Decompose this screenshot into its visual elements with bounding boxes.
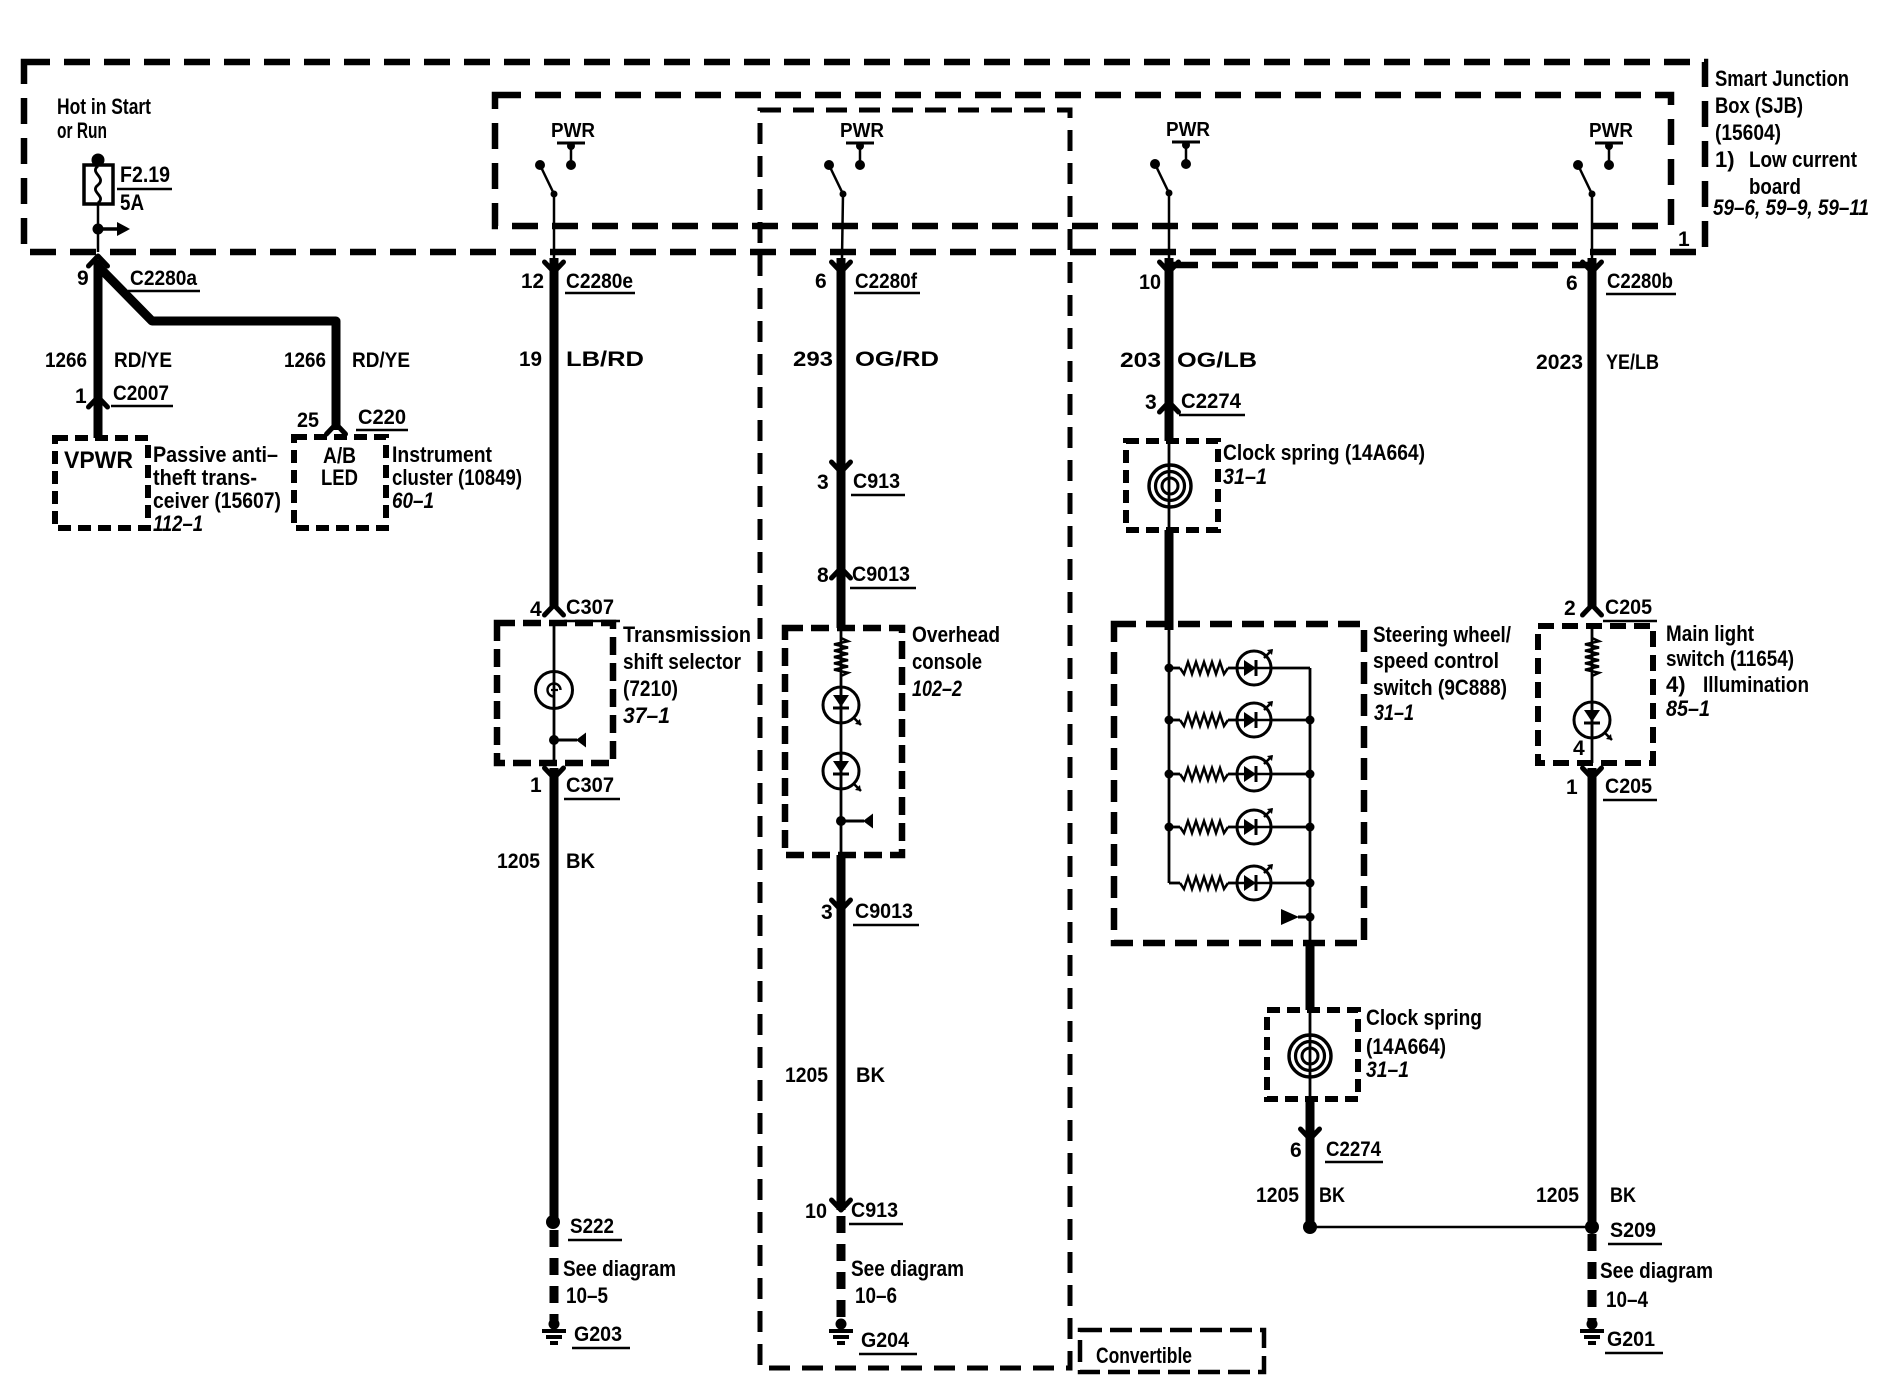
svg-text:C2274: C2274 — [1181, 390, 1241, 413]
svg-text:C913: C913 — [853, 470, 900, 493]
wire col3 switch to connector — [1168, 193, 1171, 258]
svg-text:1266: 1266 — [284, 349, 326, 372]
svg-text:60–1: 60–1 — [392, 488, 434, 513]
steering wheel/speed control switch box — [1114, 624, 1364, 943]
illumination branch 1 resistor and LED — [1165, 664, 1174, 673]
right bus in steering switch — [1309, 668, 1312, 943]
connector C913 pin 3 — [832, 462, 851, 472]
wire clock spring to steering switch — [1165, 530, 1174, 630]
svg-text:BK: BK — [1319, 1184, 1345, 1207]
svg-text:RD/YE: RD/YE — [352, 349, 410, 372]
svg-text:G201: G201 — [1607, 1328, 1655, 1351]
resistor in main light switch — [1585, 638, 1599, 676]
svg-text:3: 3 — [1145, 391, 1157, 414]
svg-text:1): 1) — [1715, 147, 1735, 172]
svg-text:31–1: 31–1 — [1223, 464, 1267, 489]
splice S222 — [546, 1215, 560, 1229]
svg-text:ceiver (15607): ceiver (15607) — [153, 488, 281, 513]
svg-text:6: 6 — [1566, 272, 1578, 295]
see-diagram wire col1 — [550, 1230, 559, 1322]
svg-text:2: 2 — [1564, 597, 1576, 620]
wire 203 OG/LB col3 — [1165, 258, 1174, 412]
connector C9013 pin 3 — [832, 900, 851, 910]
connector C307 pin 1 — [545, 768, 564, 778]
svg-text:3: 3 — [817, 471, 829, 494]
extra dashed segment below SJB bottom edge — [1172, 262, 1596, 269]
svg-text:1: 1 — [75, 385, 87, 408]
console lamp LED 1 — [823, 687, 859, 723]
svg-text:C205: C205 — [1605, 596, 1652, 619]
case ground in steering switch — [1306, 913, 1315, 922]
svg-text:Smart Junction: Smart Junction — [1715, 66, 1849, 91]
svg-text:BK: BK — [1610, 1184, 1636, 1207]
wire 1266 RD/YE to VPWR — [94, 260, 103, 438]
svg-text:Steering wheel/: Steering wheel/ — [1373, 622, 1511, 647]
wire col2 switch to connector — [842, 194, 843, 258]
svg-text:1: 1 — [530, 774, 542, 797]
svg-text:Illumination: Illumination — [1703, 672, 1809, 697]
svg-text:(14A664): (14A664) — [1366, 1034, 1446, 1059]
connector C2280b pin 6 — [1583, 262, 1602, 272]
svg-text:Clock spring (14A664): Clock spring (14A664) — [1223, 440, 1425, 465]
svg-text:RD/YE: RD/YE — [114, 349, 172, 372]
wire inside main light switch — [1591, 626, 1594, 763]
svg-text:Transmission: Transmission — [623, 622, 751, 647]
resistor in console — [834, 638, 848, 676]
svg-text:C2280e: C2280e — [566, 270, 633, 293]
svg-text:Box (SJB): Box (SJB) — [1715, 93, 1803, 118]
svg-text:31–1: 31–1 — [1366, 1057, 1409, 1082]
svg-text:or Run: or Run — [57, 118, 107, 143]
convertible variant dashed box around overhead console circuit — [760, 110, 1070, 1368]
svg-text:OG/LB: OG/LB — [1177, 349, 1257, 372]
svg-text:37–1: 37–1 — [623, 703, 670, 728]
connector C2274 pin 3 — [1160, 402, 1179, 412]
svg-text:59–6, 59–9, 59–11: 59–6, 59–9, 59–11 — [1713, 195, 1869, 220]
svg-text:VPWR: VPWR — [64, 447, 133, 474]
svg-text:C2280b: C2280b — [1607, 270, 1673, 293]
clock spring coil 1 — [1149, 465, 1191, 507]
connector pin 10 col3 — [1160, 262, 1179, 272]
svg-text:OG/RD: OG/RD — [855, 348, 939, 371]
svg-text:1: 1 — [1566, 776, 1578, 799]
wire col2 C913 to C9013 — [837, 462, 846, 575]
svg-text:YE/LB: YE/LB — [1606, 351, 1659, 374]
svg-text:Convertible: Convertible — [1096, 1343, 1192, 1368]
svg-text:PWR: PWR — [1589, 120, 1634, 142]
wire branch 1266 RD/YE to instrument cluster — [98, 266, 336, 430]
splice S209 — [1585, 1220, 1599, 1234]
svg-text:C913: C913 — [851, 1199, 898, 1222]
svg-text:10–6: 10–6 — [855, 1283, 897, 1308]
case ground in selector — [549, 735, 559, 745]
left bus in steering switch — [1168, 624, 1171, 883]
svg-text:8: 8 — [817, 564, 829, 587]
svg-text:C2274: C2274 — [1326, 1138, 1381, 1161]
connector C913 pin 10 — [832, 1200, 851, 1210]
wire 19 LB/RD col1 — [550, 258, 559, 608]
transmission shift selector box — [497, 623, 613, 763]
case ground in console — [836, 816, 846, 826]
svg-text:G203: G203 — [574, 1323, 622, 1346]
svg-text:1205: 1205 — [1256, 1184, 1299, 1207]
svg-text:PWR: PWR — [1166, 119, 1211, 141]
svg-text:6: 6 — [815, 270, 827, 293]
clock spring box 2 — [1267, 1010, 1358, 1099]
illumination branch 4 resistor and LED — [1165, 823, 1174, 832]
svg-text:3: 3 — [821, 901, 833, 924]
illumination branch 3 resistor and LED — [1165, 770, 1174, 779]
svg-text:C205: C205 — [1605, 775, 1652, 798]
svg-text:1: 1 — [1678, 228, 1690, 251]
svg-text:203: 203 — [1120, 349, 1161, 372]
connector C220 pin 25 — [327, 424, 346, 434]
svg-text:C220: C220 — [358, 406, 406, 429]
main light switch box — [1538, 626, 1653, 763]
svg-text:See diagram: See diagram — [1600, 1258, 1713, 1283]
svg-text:C2280f: C2280f — [855, 270, 918, 293]
junction node with branch arrow — [93, 224, 104, 235]
svg-text:S222: S222 — [570, 1215, 614, 1238]
wire 1205 BK col3 — [1306, 1130, 1315, 1227]
svg-text:switch (11654): switch (11654) — [1666, 646, 1794, 671]
svg-text:85–1: 85–1 — [1666, 696, 1710, 721]
svg-text:10–4: 10–4 — [1606, 1287, 1649, 1312]
svg-text:speed control: speed control — [1373, 648, 1499, 673]
svg-text:LB/RD: LB/RD — [566, 348, 644, 371]
illumination LED in main light switch — [1574, 702, 1610, 738]
svg-text:4: 4 — [530, 598, 542, 621]
svg-text:2023: 2023 — [1536, 351, 1583, 374]
wire col1 switch to connector — [553, 194, 556, 258]
passive anti-theft transceiver VPWR box — [55, 438, 148, 528]
svg-text:C2007: C2007 — [113, 382, 169, 405]
svg-text:cluster (10849): cluster (10849) — [392, 465, 522, 490]
svg-text:293: 293 — [793, 348, 833, 371]
console lamp LED 2 — [823, 753, 859, 789]
instrument cluster A/B LED box — [294, 437, 386, 528]
ground G203 — [549, 1319, 560, 1330]
svg-text:Hot in Start: Hot in Start — [57, 94, 152, 119]
wire inside selector — [553, 623, 556, 763]
svg-text:102–2: 102–2 — [912, 676, 963, 701]
svg-text:C307: C307 — [566, 774, 614, 797]
svg-text:4: 4 — [1573, 737, 1585, 760]
svg-text:5A: 5A — [120, 190, 144, 215]
wire into clock spring 1 — [1165, 409, 1174, 441]
wire col4 switch to connector — [1591, 194, 1594, 258]
svg-text:theft trans-: theft trans- — [153, 465, 257, 490]
svg-text:10: 10 — [805, 1200, 827, 1223]
svg-text:1205: 1205 — [1536, 1184, 1579, 1207]
connector C2280a pin 9 — [89, 256, 108, 266]
svg-text:PWR: PWR — [840, 120, 885, 142]
svg-text:Low current: Low current — [1749, 147, 1858, 172]
connector C307 pin 4 — [545, 605, 564, 615]
svg-text:Overhead: Overhead — [912, 622, 1000, 647]
illumination branch 2 resistor and LED — [1165, 716, 1174, 725]
fuse F2.19 5A — [92, 154, 105, 167]
ground G201 — [1587, 1319, 1598, 1330]
ground G204 — [836, 1319, 847, 1330]
svg-text:See diagram: See diagram — [563, 1256, 676, 1281]
SJB inner dashed boundary (low current board) — [495, 95, 1671, 226]
clock spring coil 2 — [1289, 1035, 1331, 1077]
Smart Junction Box outer dashed boundary — [24, 62, 1705, 252]
wire col2 into overhead console — [837, 575, 846, 628]
svg-text:31–1: 31–1 — [1374, 700, 1414, 725]
svg-text:LED: LED — [321, 465, 358, 490]
wire 1205 BK col1 — [550, 768, 559, 1222]
see-diagram wire col4 — [1588, 1234, 1597, 1322]
connector C2280f pin 6 — [832, 262, 851, 272]
svg-text:1205: 1205 — [785, 1064, 828, 1087]
svg-text:shift selector: shift selector — [623, 649, 741, 674]
svg-text:Clock spring: Clock spring — [1366, 1005, 1482, 1030]
convertible label box — [1080, 1330, 1264, 1372]
wire 1205 BK col2 — [837, 905, 846, 1210]
svg-text:C2280a: C2280a — [130, 267, 197, 290]
illumination branch 5 resistor and LED — [1169, 882, 1180, 885]
svg-text:10–5: 10–5 — [566, 1283, 608, 1308]
svg-text:See diagram: See diagram — [851, 1256, 964, 1281]
connector C2274 pin 6 — [1306, 1099, 1315, 1139]
svg-text:(7210): (7210) — [623, 676, 678, 701]
svg-text:BK: BK — [856, 1064, 885, 1087]
see-diagram wire col2 — [837, 1216, 846, 1322]
svg-text:112–1: 112–1 — [153, 511, 203, 536]
connector C205 pin 2 — [1583, 605, 1602, 615]
svg-text:F2.19: F2.19 — [120, 162, 170, 187]
connector C9013 pin 8 — [832, 568, 851, 578]
illumination lamp — [536, 672, 573, 709]
wire steering switch to clock spring 2 — [1306, 940, 1315, 1010]
svg-text:Passive anti–: Passive anti– — [153, 442, 278, 467]
svg-text:6: 6 — [1290, 1139, 1302, 1162]
svg-text:(15604): (15604) — [1715, 120, 1781, 145]
wire 1205 BK col4 — [1588, 768, 1597, 1227]
svg-text:switch (9C888): switch (9C888) — [1373, 675, 1507, 700]
junction to splice S209 — [1303, 1220, 1317, 1234]
overhead console box — [785, 628, 902, 855]
svg-text:9: 9 — [77, 267, 89, 290]
connector C2280e pin 12 — [545, 262, 564, 272]
svg-text:1205: 1205 — [497, 850, 540, 873]
svg-text:1266: 1266 — [45, 349, 87, 372]
wire from fuse to junction — [97, 204, 100, 252]
svg-text:C9013: C9013 — [852, 563, 910, 586]
svg-text:4): 4) — [1666, 672, 1686, 697]
wire 293 OG/RD col2 — [837, 258, 846, 462]
svg-text:PWR: PWR — [551, 120, 596, 142]
svg-text:19: 19 — [519, 348, 542, 371]
svg-text:12: 12 — [521, 270, 544, 293]
svg-text:BK: BK — [566, 850, 595, 873]
svg-text:C9013: C9013 — [855, 900, 913, 923]
svg-text:G204: G204 — [861, 1329, 909, 1352]
svg-text:C307: C307 — [566, 596, 614, 619]
svg-text:25: 25 — [297, 409, 319, 432]
connector C2007 pin 1 — [89, 397, 108, 407]
svg-text:Instrument: Instrument — [392, 442, 493, 467]
clock spring box 1 — [1126, 441, 1218, 530]
wire 2023 YE/LB col4 — [1588, 258, 1597, 608]
svg-text:S209: S209 — [1610, 1219, 1656, 1242]
svg-text:10: 10 — [1139, 271, 1161, 294]
wire inside console — [840, 628, 843, 855]
connector C205 pin 1 — [1583, 768, 1602, 778]
svg-text:Main light: Main light — [1666, 621, 1755, 646]
svg-text:console: console — [912, 649, 982, 674]
